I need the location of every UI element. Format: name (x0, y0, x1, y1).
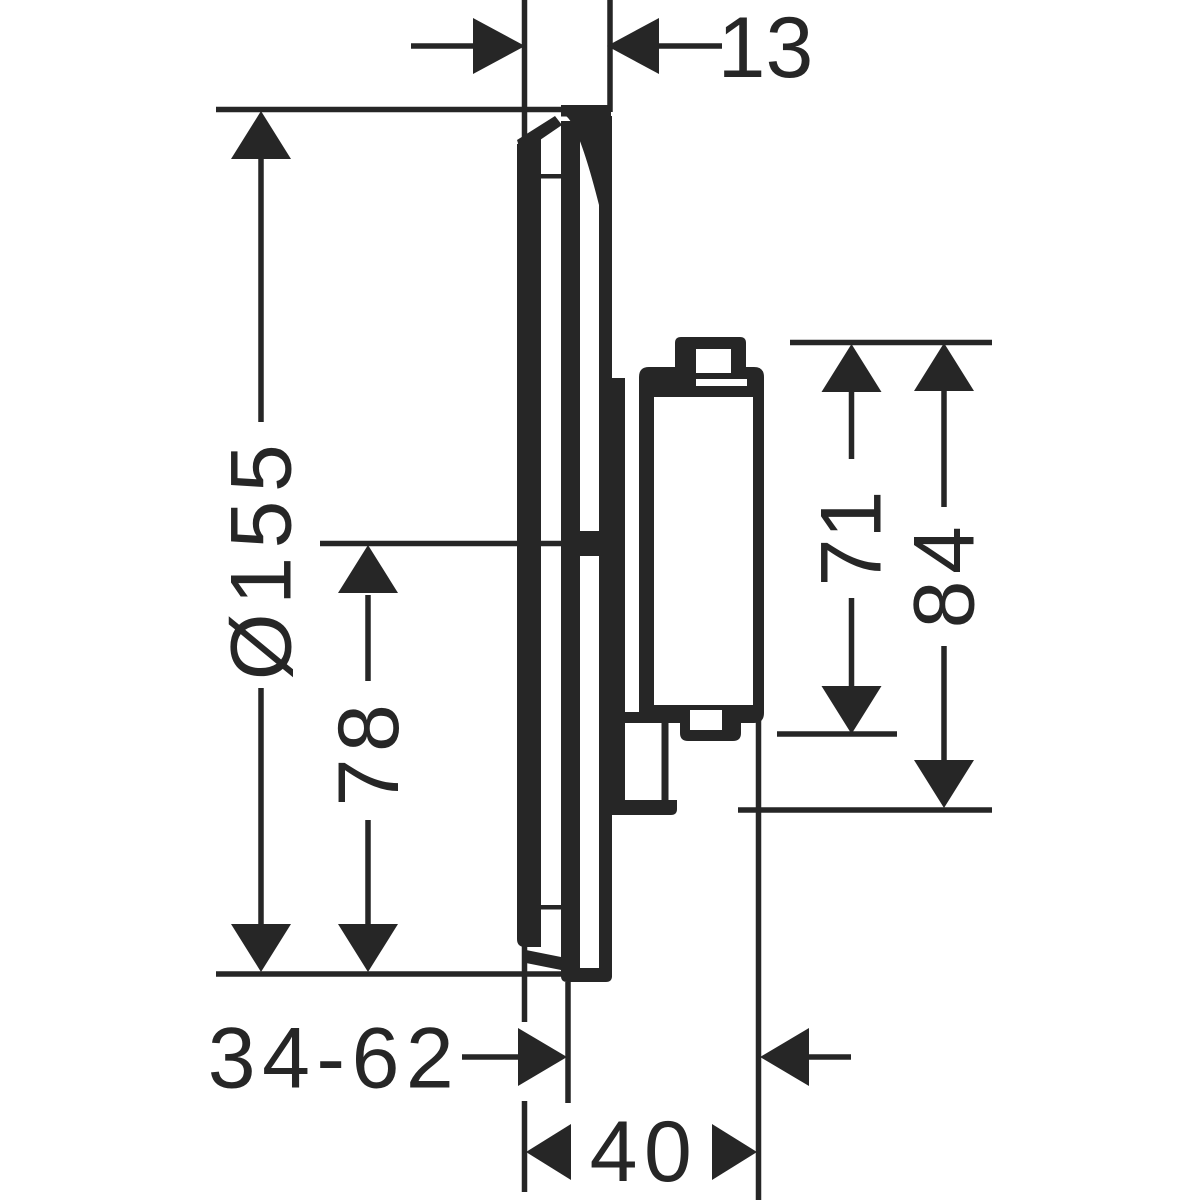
svg-text:84: 84 (897, 520, 993, 629)
svg-text:34-62: 34-62 (208, 1011, 460, 1107)
svg-text:Ø155: Ø155 (214, 436, 310, 680)
svg-text:13: 13 (718, 0, 814, 96)
svg-text:78: 78 (321, 698, 417, 807)
svg-text:40: 40 (590, 1104, 699, 1200)
svg-text:71: 71 (804, 491, 900, 587)
